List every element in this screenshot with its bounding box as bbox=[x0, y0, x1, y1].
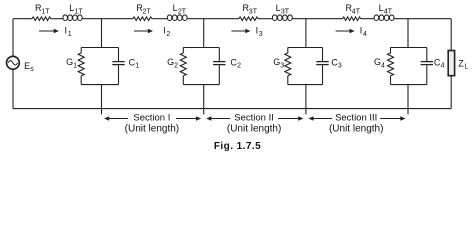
wire node 4 feed down bbox=[407, 19, 409, 48]
current arrow I3 bbox=[231, 26, 262, 38]
wire section 1 down to bus with boundary tick bbox=[101, 85, 103, 115]
current arrow I2 bbox=[134, 26, 170, 38]
svg-text:I: I bbox=[360, 26, 363, 36]
wire section 4 down to bus with boundary tick bbox=[407, 85, 409, 115]
wire top to R1T bbox=[13, 18, 32, 20]
current arrow I4 bbox=[336, 26, 367, 38]
svg-text:1: 1 bbox=[73, 62, 77, 69]
wire top rail section 2 bbox=[183, 47, 219, 49]
wire bottom rail section 4 bbox=[391, 84, 427, 86]
section marker Section III bbox=[308, 112, 405, 134]
current arrow I1 bbox=[39, 26, 72, 38]
wire top rail section 4 bbox=[391, 47, 427, 49]
svg-text:(Unit length): (Unit length) bbox=[227, 124, 281, 135]
inductor L3T bbox=[272, 3, 292, 21]
svg-text:L: L bbox=[69, 3, 74, 13]
wire R3T to L3T bbox=[258, 18, 272, 20]
svg-text:4T: 4T bbox=[352, 8, 361, 15]
svg-text:(Unit length): (Unit length) bbox=[329, 124, 383, 135]
conductance G1 bbox=[66, 48, 84, 85]
capacitor C3 bbox=[316, 48, 342, 85]
svg-text:2T: 2T bbox=[178, 8, 187, 15]
svg-text:s: s bbox=[30, 66, 34, 73]
svg-text:2: 2 bbox=[174, 62, 178, 69]
resistor R1T bbox=[32, 3, 51, 21]
inductor L2T bbox=[167, 3, 187, 21]
svg-text:4: 4 bbox=[441, 63, 445, 70]
svg-text:(Unit length): (Unit length) bbox=[125, 124, 179, 135]
svg-text:I: I bbox=[256, 26, 259, 36]
load ZL bbox=[448, 51, 468, 76]
svg-text:4: 4 bbox=[381, 62, 385, 69]
section marker Section II bbox=[206, 112, 303, 134]
svg-text:3: 3 bbox=[259, 31, 263, 38]
wire right vertical bottom bbox=[450, 76, 452, 109]
conductance G4 bbox=[374, 48, 394, 85]
wire bottom rail section 1 bbox=[81, 84, 118, 86]
wire bottom bus bbox=[13, 108, 451, 110]
svg-text:2: 2 bbox=[166, 31, 170, 38]
svg-text:3: 3 bbox=[280, 62, 284, 69]
svg-text:I: I bbox=[163, 26, 166, 36]
wire R1T to L1T bbox=[51, 18, 63, 20]
svg-text:G: G bbox=[273, 57, 280, 67]
wire R2T to L2T bbox=[152, 18, 167, 20]
resistor R3T bbox=[239, 3, 258, 21]
svg-text:L: L bbox=[464, 64, 468, 71]
wire right vertical top bbox=[450, 19, 452, 51]
wire top rail section 3 bbox=[288, 47, 323, 49]
svg-text:G: G bbox=[66, 57, 73, 67]
wire top to R2T bbox=[82, 18, 133, 20]
source Es bbox=[6, 56, 34, 73]
svg-text:4T: 4T bbox=[384, 8, 393, 15]
conductance G3 bbox=[273, 48, 291, 85]
capacitor C1 bbox=[112, 48, 139, 85]
svg-text:3T: 3T bbox=[249, 8, 258, 15]
svg-text:G: G bbox=[167, 57, 174, 67]
wire top to load bbox=[394, 18, 451, 20]
svg-text:3: 3 bbox=[338, 63, 342, 70]
svg-text:G: G bbox=[374, 57, 381, 67]
svg-text:2: 2 bbox=[237, 63, 241, 70]
resistor R4T bbox=[343, 3, 361, 21]
wire node 3 feed down bbox=[305, 19, 307, 48]
section marker Section I bbox=[104, 112, 201, 134]
svg-text:L: L bbox=[173, 3, 178, 13]
wire section 2 down to bus with boundary tick bbox=[203, 85, 205, 115]
wire left vertical bottom bbox=[12, 69, 14, 108]
capacitor C2 bbox=[213, 48, 241, 85]
svg-text:Section II: Section II bbox=[234, 112, 274, 123]
wire bottom rail section 3 bbox=[288, 84, 323, 86]
svg-text:Fig. 1.7.5: Fig. 1.7.5 bbox=[214, 141, 261, 152]
svg-text:2T: 2T bbox=[143, 8, 152, 15]
conductance G2 bbox=[167, 48, 186, 85]
svg-text:3T: 3T bbox=[281, 8, 290, 15]
svg-text:L: L bbox=[276, 3, 281, 13]
inductor L1T bbox=[63, 3, 84, 21]
resistor R2T bbox=[133, 3, 152, 21]
svg-text:Section I: Section I bbox=[133, 112, 170, 123]
wire left vertical top bbox=[12, 19, 14, 57]
wire top rail section 1 bbox=[81, 47, 118, 49]
wire top to R4T bbox=[293, 18, 343, 20]
svg-text:I: I bbox=[65, 26, 68, 36]
wire R4T to L4T bbox=[361, 18, 374, 20]
svg-text:1: 1 bbox=[68, 31, 72, 38]
svg-text:4: 4 bbox=[363, 31, 367, 38]
svg-text:1T: 1T bbox=[41, 8, 50, 15]
wire bottom rail section 2 bbox=[183, 84, 219, 86]
svg-text:Z: Z bbox=[458, 58, 464, 68]
capacitor C4 bbox=[421, 48, 445, 85]
wire section 3 down to bus with boundary tick bbox=[305, 85, 307, 115]
wire top to R3T bbox=[187, 18, 239, 20]
svg-text:L: L bbox=[379, 3, 384, 13]
inductor L4T bbox=[374, 3, 394, 21]
wire node 2 feed down bbox=[203, 19, 205, 48]
svg-text:1T: 1T bbox=[75, 8, 84, 15]
svg-text:1: 1 bbox=[135, 63, 139, 70]
wire node 1 feed down bbox=[101, 19, 103, 48]
svg-text:Section III: Section III bbox=[335, 112, 377, 123]
